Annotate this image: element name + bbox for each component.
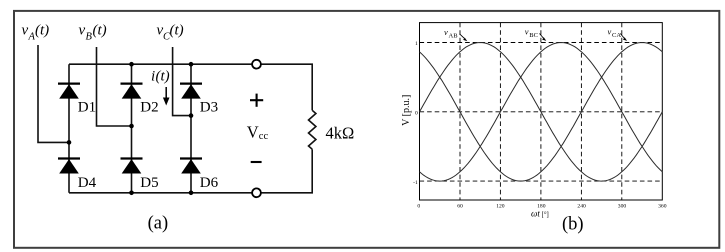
svg-text:(t): (t): [35, 23, 49, 39]
svg-text:v: v: [79, 23, 86, 39]
svg-text:0: 0: [417, 204, 420, 210]
svg-text:D1: D1: [78, 100, 96, 116]
svg-text:360: 360: [658, 204, 667, 210]
svg-text:(t): (t): [170, 23, 184, 39]
svg-text:-1: -1: [413, 180, 418, 186]
svg-text:0: 0: [415, 111, 418, 117]
svg-text:D6: D6: [200, 175, 219, 191]
svg-text:v: v: [525, 27, 529, 37]
svg-text:120: 120: [496, 204, 505, 210]
svg-text:240: 240: [577, 204, 586, 210]
svg-text:D2: D2: [140, 100, 158, 116]
svg-text:V [p.u.]: V [p.u.]: [401, 95, 412, 126]
svg-text:(t): (t): [156, 69, 170, 85]
svg-text:(a): (a): [148, 214, 169, 234]
svg-text:CA: CA: [612, 32, 621, 39]
svg-text:1: 1: [415, 41, 418, 47]
svg-text:v: v: [608, 27, 612, 37]
svg-text:v: v: [22, 23, 29, 39]
svg-text:B: B: [86, 32, 93, 43]
svg-text:AB: AB: [449, 33, 459, 40]
svg-text:V: V: [247, 123, 259, 142]
svg-text:cc: cc: [259, 131, 269, 142]
svg-text:4kΩ: 4kΩ: [326, 123, 355, 142]
svg-text:BC: BC: [529, 32, 538, 39]
svg-text:60: 60: [457, 204, 463, 210]
svg-text:D5: D5: [140, 175, 158, 191]
svg-text:(b): (b): [562, 215, 584, 235]
svg-text:D3: D3: [200, 100, 218, 116]
svg-text:300: 300: [618, 204, 627, 210]
svg-text:D4: D4: [78, 175, 97, 191]
svg-text:v: v: [444, 27, 448, 37]
svg-text:(t): (t): [93, 23, 107, 39]
